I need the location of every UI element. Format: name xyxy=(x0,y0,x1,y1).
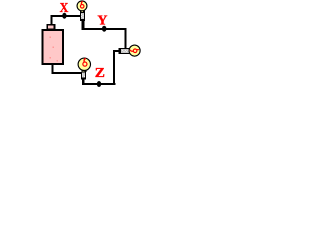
wire: lamp L2 left pin to corner xyxy=(113,50,119,52)
wire: lamp L3 bottom pin down xyxy=(82,79,84,85)
lamp L2 base xyxy=(119,48,132,54)
lamp L3 (bottom) xyxy=(78,58,90,79)
svg-text:Z: Z xyxy=(95,66,105,81)
node Z junction dot xyxy=(97,81,101,87)
lamp L1 bulb xyxy=(77,1,87,11)
wire: middle run right to corner xyxy=(82,28,127,30)
battery B1 body xyxy=(42,30,63,64)
lamp L3 filament xyxy=(83,58,87,66)
lamp L1 filament xyxy=(80,1,84,8)
node X junction dot xyxy=(62,13,66,19)
wire: bottom-left run from battery to lamp L3 xyxy=(51,72,81,74)
battery B1 positive nub xyxy=(47,25,54,29)
wire: lamp L1 bottom pin down xyxy=(82,21,85,31)
lamp L3 bulb xyxy=(78,58,90,70)
wire: battery bottom stem xyxy=(51,65,53,74)
lamp L2 (right, bulb pointing right) xyxy=(119,45,141,56)
lamp L1 base xyxy=(80,12,85,21)
wire: top run from corner to lamp L1 base xyxy=(50,15,80,17)
wire: far-right vertical down xyxy=(113,50,115,85)
wire: top-left vertical stem down to battery nub xyxy=(50,15,52,25)
lamp L2 bulb xyxy=(129,45,140,56)
lamp L3 neck xyxy=(81,70,86,73)
svg-text:X: X xyxy=(60,0,69,15)
lamp L3 base xyxy=(81,72,86,80)
node Y junction dot xyxy=(102,26,107,32)
wire: bottom run to far-right vertical xyxy=(82,83,116,85)
wire: vertical feed down to lamp L2 xyxy=(124,28,126,48)
lamp L1 neck xyxy=(80,10,85,12)
lamp L2 filament xyxy=(130,49,139,53)
svg-text:Y: Y xyxy=(97,13,107,28)
lamp L1 (top) xyxy=(77,1,87,21)
